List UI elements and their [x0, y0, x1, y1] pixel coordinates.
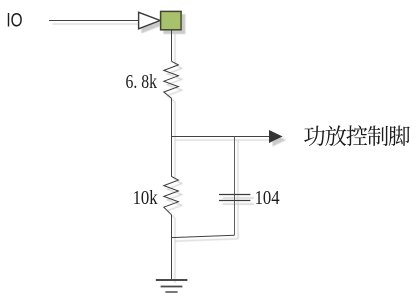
wire R1 through node A down to resistor R2	[171, 98, 173, 176]
svg-text:6. 8k: 6. 8k	[126, 71, 158, 93]
net label 功放控制脚 (amplifier control pin)	[304, 125, 410, 146]
ground symbol	[156, 280, 188, 292]
capacitor C1 top plate	[219, 194, 250, 196]
capacitor C1 bottom plate	[219, 200, 250, 202]
resistor R1	[164, 61, 179, 98]
wire pad to resistor R1	[171, 30, 173, 61]
resistor R2	[164, 177, 179, 215]
svg-text:10k: 10k	[133, 187, 158, 209]
wire node A down to capacitor C1	[234, 137, 236, 236]
node A wire to output arrow	[172, 136, 271, 138]
svg-text:104: 104	[255, 187, 280, 209]
wire IO net to buffer input	[49, 20, 139, 22]
output arrowhead	[269, 130, 283, 143]
buffer triangle symbol	[139, 12, 161, 29]
wire R2 to ground	[171, 215, 173, 280]
IO port pad (green square)	[161, 11, 182, 29]
svg-text:IO: IO	[6, 10, 22, 32]
junction slant wire joining capacitor branch	[172, 235, 235, 237]
